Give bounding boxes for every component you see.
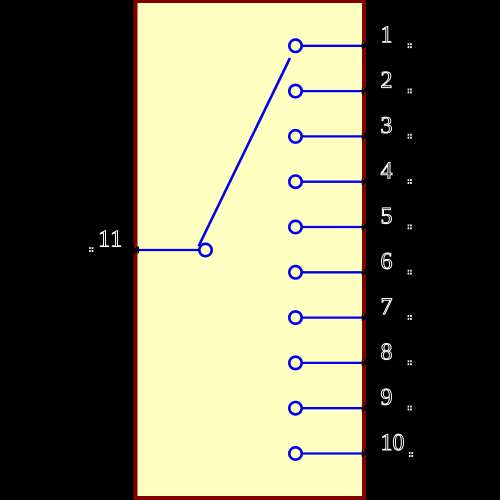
pin 6 wire xyxy=(303,271,363,273)
pin 1 anchor marker xyxy=(408,43,412,48)
pin 2 wire xyxy=(303,90,363,92)
pin 11 anchor marker xyxy=(89,247,93,252)
pin 1 contact circle xyxy=(289,40,301,52)
pin 4 contact circle xyxy=(289,176,301,188)
pin 10 endpoint cue xyxy=(362,450,369,457)
pin 9 contact circle xyxy=(289,402,301,414)
pin 5 contact circle xyxy=(289,221,301,233)
pin 2 endpoint cue xyxy=(362,88,369,95)
pin 5 anchor marker xyxy=(408,224,412,229)
pin 8 number label "8" xyxy=(381,344,391,360)
pin 9 endpoint cue xyxy=(362,405,369,412)
pin 11 number label "11" xyxy=(100,231,120,247)
switch body box xyxy=(136,1,365,498)
pin 2 number label "2" xyxy=(382,72,392,88)
pin 4 anchor marker xyxy=(408,179,412,184)
pin 3 anchor marker xyxy=(408,134,412,139)
pin 6 anchor marker xyxy=(408,270,412,275)
switch wiper arm xyxy=(199,58,290,246)
pin 4 wire xyxy=(303,181,363,183)
pin 3 endpoint cue xyxy=(362,133,369,140)
pin 11 endpoint cue xyxy=(132,247,139,254)
pin 1 wire xyxy=(303,45,363,47)
pin 3 contact circle xyxy=(289,130,301,142)
pin 7 wire xyxy=(303,316,363,318)
pin 8 anchor marker xyxy=(408,360,412,365)
pin 10 wire xyxy=(303,452,363,454)
pin 10 contact circle xyxy=(289,447,301,459)
pin 10 number label "10" xyxy=(383,434,404,450)
pin 4 number label "4" xyxy=(381,163,392,179)
pin 2 anchor marker xyxy=(408,89,412,94)
pin 5 wire xyxy=(303,226,363,228)
pin 11 common contact circle xyxy=(199,244,211,256)
pin 1 number label "1" xyxy=(383,27,391,43)
pin 8 contact circle xyxy=(289,357,301,369)
pin 4 endpoint cue xyxy=(362,178,369,185)
pin 7 anchor marker xyxy=(408,315,412,320)
pin 9 anchor marker xyxy=(408,406,412,411)
pin 5 endpoint cue xyxy=(362,224,369,231)
pin 9 wire xyxy=(303,407,363,409)
pin 9 number label "9" xyxy=(381,389,391,405)
pin 3 wire xyxy=(303,135,363,137)
pin 6 contact circle xyxy=(289,266,301,278)
pin 3 number label "3" xyxy=(382,117,392,133)
pin 8 endpoint cue xyxy=(362,360,369,367)
pin 6 endpoint cue xyxy=(362,269,369,276)
pin 10 anchor marker xyxy=(409,452,413,457)
pin 7 endpoint cue xyxy=(362,314,369,321)
pin 6 number label "6" xyxy=(382,253,392,269)
pin 7 contact circle xyxy=(289,311,301,323)
pin 2 contact circle xyxy=(289,85,301,97)
pin 5 number label "5" xyxy=(382,208,392,224)
pin 8 wire xyxy=(303,362,363,364)
pin 11 wire xyxy=(139,249,199,251)
pin 7 number label "7" xyxy=(382,299,392,315)
pin 1 endpoint cue xyxy=(362,42,369,49)
